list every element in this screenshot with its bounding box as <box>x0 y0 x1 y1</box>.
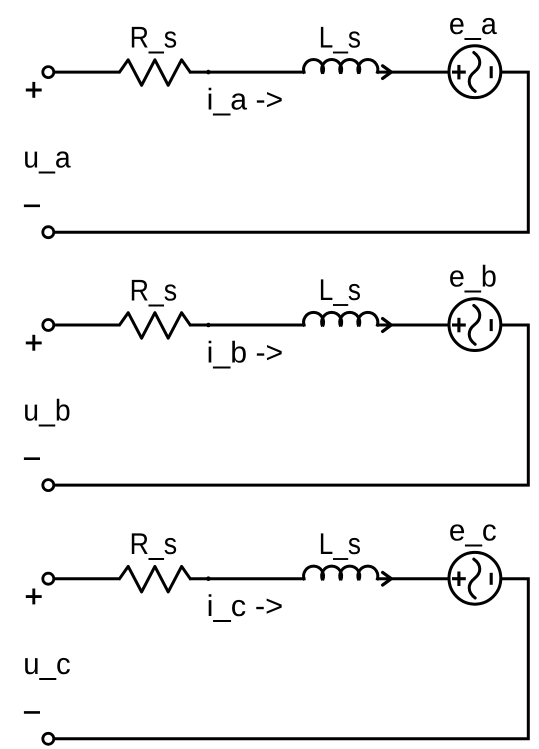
current direction arrowhead <box>383 66 392 79</box>
terminal pin n (phase a bottom) <box>43 227 54 238</box>
source - marking (vertical bar) <box>490 319 493 331</box>
voltage source e_b (AC source U1 phase b) <box>449 299 501 351</box>
resistor R_s (phase a) <box>120 60 191 86</box>
current direction arrowhead <box>383 319 392 332</box>
source - marking (vertical bar) <box>490 66 493 78</box>
source + marking <box>452 65 466 80</box>
wire: terminal to resistor R_s <box>53 324 120 327</box>
resistor R_s (phase b) <box>120 313 191 339</box>
phase a circuit <box>23 8 528 238</box>
terminal pin p (phase c top) <box>43 573 54 584</box>
svg-text:e_b: e_b <box>449 261 497 294</box>
source sine squiggle <box>469 559 480 598</box>
inductor L_s (phase c) <box>304 566 378 580</box>
wire: inductor to source e_b <box>377 324 449 327</box>
svg-text:L_s: L_s <box>319 21 361 54</box>
phase b circuit <box>23 261 528 491</box>
polarity label + (phase a) <box>26 82 42 98</box>
wire: source around right side and bottom back to terminal n <box>53 325 528 485</box>
wire: source around right side and bottom back to terminal n <box>53 72 528 232</box>
svg-text:R_s: R_s <box>130 528 178 561</box>
source + marking <box>452 318 466 333</box>
wire: terminal to resistor R_s <box>53 577 120 580</box>
svg-text:L_s: L_s <box>319 274 361 307</box>
inductor L_s (phase b) <box>304 312 378 326</box>
wire: resistor to inductor L_s <box>189 324 306 327</box>
svg-text:u_a: u_a <box>23 141 71 174</box>
source sine squiggle <box>469 305 480 344</box>
svg-text:R_s: R_s <box>130 22 178 55</box>
polarity label + (phase c) <box>26 589 42 605</box>
polarity label + (phase b) <box>26 335 42 351</box>
phase c circuit <box>23 514 528 744</box>
svg-text:e_a: e_a <box>449 8 497 41</box>
svg-text:u_c: u_c <box>23 648 70 681</box>
polarity label - (phase c) <box>24 711 40 714</box>
svg-text:i_c ->: i_c -> <box>207 590 284 623</box>
resistor R_s (phase c) <box>120 566 191 592</box>
svg-text:i_a ->: i_a -> <box>207 84 284 117</box>
wire: inductor to source e_c <box>377 577 449 580</box>
wire: resistor to inductor L_s <box>189 71 306 74</box>
source sine squiggle <box>469 53 480 92</box>
junction node (phase a) <box>206 70 211 75</box>
svg-text:L_s: L_s <box>319 528 361 561</box>
terminal pin p (phase b top) <box>43 320 54 331</box>
svg-text:u_b: u_b <box>23 394 70 427</box>
svg-text:i_b ->: i_b -> <box>207 336 284 369</box>
terminal pin p (phase a top) <box>43 67 54 78</box>
junction node (phase c) <box>206 576 211 581</box>
terminal pin n (phase b bottom) <box>43 480 54 491</box>
junction node (phase b) <box>206 323 211 328</box>
wire: inductor to source e_a <box>377 71 449 74</box>
svg-text:R_s: R_s <box>130 275 178 308</box>
wire: source around right side and bottom back to terminal n <box>53 579 528 739</box>
svg-text:e_c: e_c <box>449 514 497 547</box>
source - marking (vertical bar) <box>490 573 493 585</box>
terminal pin n (phase c bottom) <box>43 733 54 744</box>
polarity label - (phase b) <box>24 457 40 460</box>
wire: terminal to resistor R_s <box>53 71 120 74</box>
source + marking <box>452 572 466 587</box>
inductor L_s (phase a) <box>304 60 378 74</box>
wire: resistor to inductor L_s <box>189 577 306 580</box>
voltage source e_a (AC source U1 phase a) <box>449 46 501 98</box>
current direction arrowhead <box>383 572 392 585</box>
voltage source e_c (AC source U1 phase c) <box>449 552 501 604</box>
polarity label - (phase a) <box>24 205 40 208</box>
